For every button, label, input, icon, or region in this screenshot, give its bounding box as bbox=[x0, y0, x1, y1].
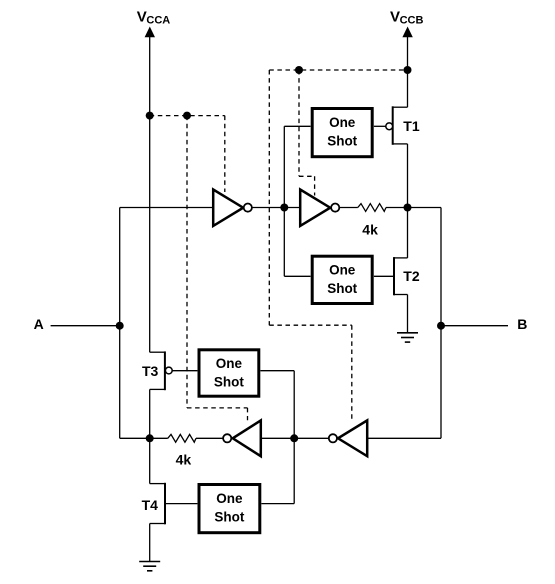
svg-text:One: One bbox=[216, 491, 243, 506]
svg-text:4k: 4k bbox=[176, 451, 192, 467]
svg-text:B: B bbox=[517, 316, 527, 332]
svg-text:CCA: CCA bbox=[146, 14, 170, 26]
svg-text:T3: T3 bbox=[142, 363, 159, 379]
svg-text:One: One bbox=[216, 356, 243, 371]
svg-text:V: V bbox=[390, 8, 400, 25]
svg-text:Shot: Shot bbox=[214, 509, 244, 524]
svg-text:One: One bbox=[329, 263, 356, 278]
svg-text:Shot: Shot bbox=[327, 133, 357, 148]
svg-text:V: V bbox=[137, 8, 147, 25]
svg-text:T4: T4 bbox=[142, 497, 159, 513]
svg-text:4k: 4k bbox=[362, 221, 378, 237]
svg-text:One: One bbox=[329, 115, 356, 130]
svg-text:Shot: Shot bbox=[214, 375, 244, 390]
svg-text:Shot: Shot bbox=[327, 281, 357, 296]
svg-text:T2: T2 bbox=[403, 268, 420, 284]
svg-text:A: A bbox=[34, 316, 44, 332]
svg-text:T1: T1 bbox=[403, 118, 420, 134]
svg-text:CCB: CCB bbox=[400, 14, 424, 26]
